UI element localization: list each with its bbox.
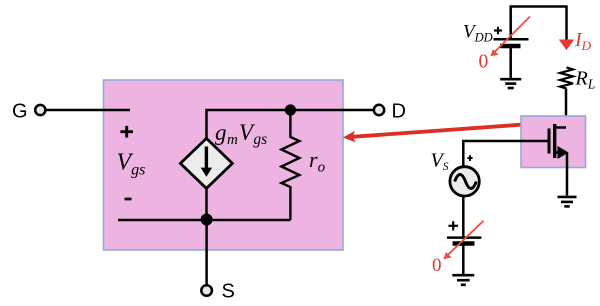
- wire battery to ground: [509, 46, 512, 79]
- source VS (sine): [450, 167, 479, 196]
- battery VDD plate +: [494, 38, 529, 41]
- ground (transistor source): [558, 197, 577, 207]
- label - (Vgs minus): [125, 198, 132, 201]
- battery VDD plate -: [500, 44, 521, 49]
- dependent source gmVgs (diamond): [180, 138, 232, 188]
- svg-text:VS: VS: [431, 150, 449, 174]
- current ID arrow: [559, 40, 574, 51]
- annotation arrow (points from transistor to model): [353, 125, 522, 137]
- transistor box: [521, 116, 586, 168]
- resistor ro: [281, 110, 299, 220]
- dependent source arrow: [205, 147, 208, 169]
- wire VS to battery: [462, 196, 465, 238]
- svg-text:RL: RL: [575, 68, 596, 92]
- wire top (drain node): [207, 110, 375, 139]
- svg-text:S: S: [222, 281, 235, 303]
- svg-text:0: 0: [432, 255, 442, 276]
- wire diamond-bottom to source node: [205, 188, 208, 220]
- terminal D: [374, 105, 384, 115]
- zeroed-source slash (VS dc): [445, 221, 484, 258]
- wire source to ground: [566, 153, 569, 196]
- svg-text:D: D: [392, 101, 406, 123]
- svg-text:G: G: [12, 101, 28, 123]
- battery (VS dc) plate -: [453, 241, 475, 246]
- label + (VS): [467, 155, 472, 161]
- label + (Vgs plus): [120, 126, 133, 138]
- ground (VDD): [500, 79, 521, 88]
- wire to S terminal: [205, 220, 208, 285]
- label + (VDD): [494, 27, 502, 35]
- wire bottom (source node): [118, 219, 290, 222]
- transistor M1 source lead: [555, 151, 561, 154]
- svg-text:0: 0: [479, 52, 489, 73]
- wire RL to drain: [565, 89, 568, 128]
- ground (VS dc): [452, 275, 474, 285]
- transistor M1 channel bar: [553, 124, 556, 158]
- transistor M1 drain lead: [555, 126, 566, 129]
- svg-text:VDD: VDD: [463, 22, 493, 45]
- battery (VS dc) plate +: [447, 236, 482, 239]
- wire gate: [46, 109, 130, 112]
- transistor M1 gate bar: [548, 129, 551, 154]
- wire battery to ground: [462, 244, 465, 275]
- zeroed-source slash (VDD): [494, 17, 531, 54]
- terminal S: [201, 285, 212, 296]
- wire VDD loop top: [511, 7, 567, 41]
- junction dot (drain node): [285, 104, 296, 115]
- terminal G: [35, 105, 45, 115]
- label + (VS dc): [449, 221, 459, 230]
- resistor RL: [560, 67, 573, 88]
- small-signal model box: [104, 80, 344, 250]
- junction dot (source node): [201, 214, 213, 226]
- svg-text:ID: ID: [574, 29, 592, 53]
- wire gate to source vs: [463, 141, 548, 167]
